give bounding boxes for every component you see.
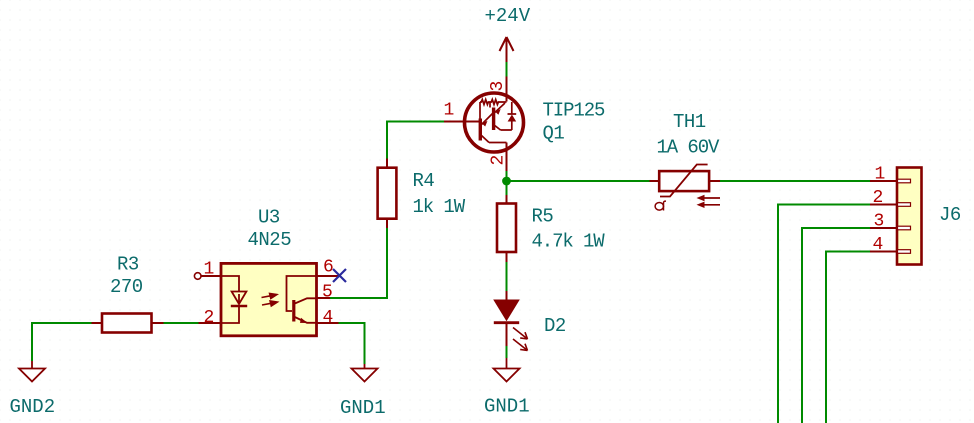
svg-text:GND1: GND1 <box>340 397 386 419</box>
pin 2 stub bottom <box>506 143 508 172</box>
svg-text:4.7k 1W: 4.7k 1W <box>532 231 606 253</box>
svg-text:U3: U3 <box>258 207 280 229</box>
base pin line <box>444 121 479 123</box>
svg-text:5: 5 <box>322 283 332 303</box>
wire J6 pin3 <box>802 228 870 423</box>
svg-text:J6: J6 <box>939 204 961 226</box>
wire +24V to Q1 emitter <box>506 62 508 77</box>
wire junction to TH1 <box>507 180 650 182</box>
wire R3 to GND2 <box>32 323 92 361</box>
diode inside <box>501 102 517 130</box>
wire TH1 to J6 pin1 <box>720 180 870 182</box>
optocoupler U3 4N25 <box>194 263 339 335</box>
PNP emitter arrows <box>482 121 488 127</box>
LED D2 <box>493 291 527 351</box>
Q1b emitter/collector <box>495 103 505 130</box>
bottom rail <box>489 142 507 144</box>
svg-text:4: 4 <box>873 235 883 255</box>
junction node <box>502 177 511 186</box>
wire J6 pin4 <box>826 252 870 423</box>
arrows <box>697 195 721 208</box>
internal LED <box>221 276 247 323</box>
bar2 drop <box>489 102 491 108</box>
svg-text:D2: D2 <box>544 315 566 337</box>
ground GND1 (left) <box>352 364 378 382</box>
svg-text:3: 3 <box>874 212 884 232</box>
svg-text:TIP125: TIP125 <box>543 100 606 122</box>
internal phototransistor <box>287 276 317 323</box>
svg-text:4: 4 <box>323 308 333 328</box>
wire Q1 collector down to R5 <box>506 171 508 195</box>
top rail with resistors <box>480 100 507 120</box>
resistor R3 <box>92 314 164 333</box>
svg-text:1A 60V: 1A 60V <box>657 137 721 159</box>
pin 1 with inverted circle <box>194 273 201 280</box>
Q1a emitter/collector <box>482 113 494 143</box>
svg-text:GND1: GND1 <box>484 396 530 418</box>
wire R4 bottom to U3 pin5 <box>330 228 387 298</box>
resistor R4 <box>378 159 397 229</box>
svg-text:1: 1 <box>875 165 885 185</box>
svg-text:R4: R4 <box>413 170 435 192</box>
bar Q1b <box>492 108 495 131</box>
svg-text:4N25: 4N25 <box>248 229 292 251</box>
pin 2 <box>199 322 222 324</box>
pin 5 <box>317 297 331 299</box>
resistor R5 <box>497 195 516 262</box>
svg-text:1: 1 <box>204 259 214 279</box>
svg-text:R5: R5 <box>532 206 554 228</box>
connector J6 <box>870 168 922 265</box>
svg-text:2: 2 <box>204 308 214 328</box>
pin 4 <box>317 322 339 324</box>
pin 6 <box>317 275 340 277</box>
svg-text:3: 3 <box>488 81 508 91</box>
svg-text:270: 270 <box>110 276 143 298</box>
wire U3 pin4 to GND1 <box>339 323 365 364</box>
ground GND1 (centre) <box>494 358 520 382</box>
thermistor TH1 <box>650 165 721 211</box>
pin 3 stub top <box>506 77 508 102</box>
theta mark <box>655 201 666 210</box>
svg-text:2: 2 <box>489 155 509 165</box>
svg-text:+24V: +24V <box>485 5 531 27</box>
transistor Q1 TIP125 <box>444 77 524 172</box>
coupling arrows <box>262 294 278 307</box>
wire J6 pin2 <box>778 205 870 423</box>
power symbol +24V <box>500 37 514 62</box>
svg-text:TH1: TH1 <box>673 111 706 133</box>
svg-text:1: 1 <box>444 101 454 121</box>
bar Q1a <box>479 119 482 141</box>
wire R3 to U3 pin2 <box>164 322 199 324</box>
svg-text:Q1: Q1 <box>543 123 565 145</box>
svg-text:2: 2 <box>873 188 883 208</box>
svg-text:6: 6 <box>323 258 333 278</box>
wire R5 to D2 <box>506 262 508 291</box>
wire D2 to GND1 <box>506 346 508 358</box>
wire R4 top to Q1 base <box>387 122 444 159</box>
emission arrows <box>513 328 528 351</box>
svg-text:1k 1W: 1k 1W <box>413 196 466 218</box>
diode triangle <box>508 115 517 122</box>
no-connect X on pin 6 <box>333 269 346 282</box>
ground GND2 <box>19 361 45 382</box>
svg-text:R3: R3 <box>117 253 139 275</box>
svg-text:GND2: GND2 <box>10 396 56 418</box>
